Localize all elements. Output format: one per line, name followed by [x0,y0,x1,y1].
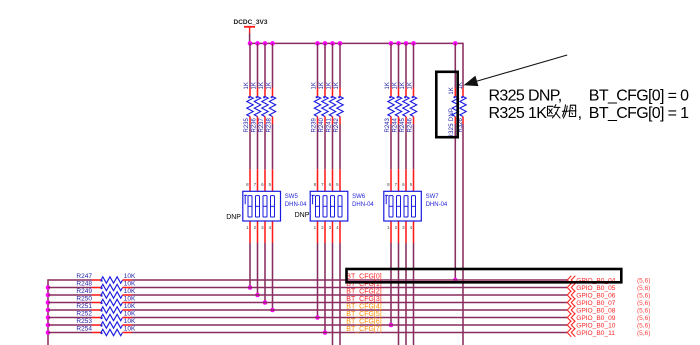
switch top pin at x=257.5 [257,169,259,191]
wire rail to R242 [339,43,341,87]
svg-text:DHN-04: DHN-04 [285,202,307,208]
resistor R238 1K pull-up [267,82,276,132]
wire R235 to switch pin [249,124,251,169]
wire net BT_CFG[0] [132,279,568,281]
wire: 3V3 rail [249,42,463,44]
svg-text:R250: R250 [76,295,92,302]
svg-text:2: 2 [254,225,257,230]
junction at x=272.5 [270,308,275,313]
svg-text:10K: 10K [124,273,136,280]
svg-text:1K: 1K [393,82,399,89]
junction at x=265 [263,300,268,305]
switch bottom pin at x=406 [405,221,407,243]
wire switch pin down from x=391 [390,243,392,325]
switch bottom pin at x=413.5 [413,221,415,243]
svg-text:R248: R248 [76,280,92,287]
svg-text:BT_CFG[0] = 1: BT_CFG[0] = 1 [589,105,689,122]
switch top pin at x=250 [249,169,251,191]
wire bus to R254 [48,332,92,334]
wire switch pin down from x=406 [405,243,407,345]
node R241 rail junction [330,41,335,46]
svg-text:1K: 1K [259,82,265,89]
svg-text:1: 1 [246,225,249,230]
svg-text:DNP: DNP [295,212,310,219]
svg-text:GPIO_B0_07: GPIO_B0_07 [576,300,616,307]
wire net BT_CFG[1] [132,287,568,289]
wire rail to R245 [405,43,407,87]
wire switch pin down from x=413.5 [413,243,415,345]
off-page connector GPIO_B0_10 [567,321,575,329]
svg-text:1K: 1K [334,82,340,89]
junction bus row 6 [46,315,51,320]
resistor R246 1K pull-up [408,82,417,132]
junction bus row 7 [46,323,51,328]
wire bus to R249 [48,294,92,296]
wire rail to R246 [413,43,415,87]
svg-text:7: 7 [254,182,257,187]
wire bus to R252 [48,317,92,319]
wire R242 to switch pin [339,124,341,169]
junction bus row 8 [46,330,51,335]
DIP switch SW5 DHN-04 [243,191,281,221]
wire net BT_CFG[4] [132,309,568,311]
wire R326 down [462,124,464,345]
resistor R325 1K [449,87,459,138]
svg-text:BT_CFG[3]: BT_CFG[3] [346,296,381,303]
wire rail to R235 [249,43,251,87]
resistor R252 10K [76,310,136,320]
svg-text:BT_CFG[0] = 0: BT_CFG[0] = 0 [589,87,689,104]
wire switch pin down from x=250 [249,243,251,288]
node R239 rail junction [315,41,320,46]
resistor R248 10K [76,280,136,290]
wire: left vertical bus [47,279,49,345]
wire R245 to switch pin [405,124,407,169]
wire R236 to switch pin [257,124,259,169]
junction at x=325 [323,330,328,335]
node R245 rail junction [404,41,409,46]
svg-text:BT_CFG[0]: BT_CFG[0] [346,274,381,281]
wire rail to R236 [257,43,259,87]
svg-text:R253: R253 [76,318,92,325]
switch top pin at x=332.5 [332,169,334,191]
wire R243 to switch pin [390,124,392,169]
svg-text:1: 1 [314,225,317,230]
resistor R244 1K pull-up [393,82,402,132]
svg-text:6: 6 [329,182,332,187]
wire rail to R244 [398,43,400,87]
wire bus to R250 [48,302,92,304]
svg-text:1K: 1K [267,82,273,89]
wire net BT_CFG[6] [132,324,568,326]
wire rail to R243 [390,43,392,87]
node R240 rail junction [323,41,328,46]
svg-text:(5,6): (5,6) [637,322,650,329]
svg-text:SW7: SW7 [426,194,440,200]
svg-text:(5,6): (5,6) [637,292,650,299]
junction BT_CFG[0] / R325 [453,278,458,283]
svg-text:6: 6 [402,182,405,187]
resistor R247 10K [76,273,136,283]
off-page connector GPIO_B0_04 [567,276,575,284]
svg-text:DNP: DNP [226,214,241,221]
resistor R242 1K pull-up [334,82,343,132]
wire bus to R248 [48,287,92,289]
svg-text:10K: 10K [124,303,136,310]
svg-text:1K: 1K [319,82,325,89]
svg-text:4: 4 [336,225,339,230]
wire switch pin down from x=272.5 [272,243,274,310]
switch bottom pin at x=272.5 [272,221,274,243]
glyph mu (Chinese) [562,105,576,118]
switch bottom pin at x=325 [324,221,326,243]
svg-text:R249: R249 [76,288,92,295]
switch top pin at x=391 [390,169,392,191]
svg-text:DHN-04: DHN-04 [426,202,448,208]
switch top pin at x=406 [405,169,407,191]
junction at x=257.5 [255,293,260,298]
switch bottom pin at x=332.5 [332,221,334,243]
svg-text:1K: 1K [244,82,250,89]
resistor R251 10K [76,303,136,313]
svg-text:10K: 10K [124,296,136,303]
svg-text:GPIO_B0_11: GPIO_B0_11 [576,330,615,337]
DIP switch SW6 DHN-04 [310,191,348,221]
wire switch pin down from x=257.5 [257,243,259,295]
svg-text:7: 7 [321,182,324,187]
annotation arrow [474,55,567,82]
switch top pin at x=340 [339,169,341,191]
svg-text:(5,6): (5,6) [637,285,650,292]
wire: rail corner down to R326 [462,43,464,88]
junction at x=391 [389,323,394,328]
switch bottom pin at x=317.5 [317,221,319,243]
wire: power stub [249,34,251,44]
resistor R241 1K pull-up [327,82,336,132]
junction at x=250 [248,285,253,290]
switch top pin at x=413.5 [413,169,415,191]
resistor R250 10K [76,295,136,305]
svg-text:R247: R247 [76,273,92,280]
wire bus to R247 [48,279,92,281]
svg-text:3: 3 [402,225,405,230]
wire switch pin down from x=317.5 [317,243,319,318]
node R242 rail junction [338,41,343,46]
svg-text:BT_CFG[7]: BT_CFG[7] [346,326,381,333]
wire R241 to switch pin [332,124,334,169]
svg-text:1K: 1K [327,82,333,89]
pin numbers SW5 [246,182,272,230]
power symbol DCDC_3V3 [234,19,268,33]
pin numbers SW7 [387,182,413,230]
wire rail to R237 [264,43,266,87]
svg-text:1K: 1K [408,82,414,89]
switch top pin at x=265 [264,169,266,191]
switch top pin at x=317.5 [317,169,319,191]
wire R244 to switch pin [398,124,400,169]
wire R238 to switch pin [272,124,274,169]
svg-text:10K: 10K [124,326,136,333]
svg-text:R325 1K: R325 1K [489,105,548,122]
svg-text:SW5: SW5 [285,194,299,200]
svg-text:8: 8 [314,182,317,187]
resistor R254 10K [76,325,136,335]
svg-text:1K: 1K [385,82,391,89]
node R235 rail junction [248,41,253,46]
node R325 rail junction [453,41,458,46]
wire R239 to switch pin [317,124,319,169]
svg-text:,: , [578,105,582,122]
wire switch pin down from x=265 [264,243,266,303]
svg-text:GPIO_B0_05: GPIO_B0_05 [576,285,616,292]
svg-text:BT_CFG[5]: BT_CFG[5] [346,311,381,318]
svg-text:5: 5 [269,182,272,187]
resistor R239 1K pull-up [312,82,321,132]
wire rail to R238 [272,43,274,87]
junction bus row 3 [46,293,51,298]
switch bottom pin at x=250 [249,221,251,243]
glyph ou (Chinese) [547,105,559,118]
switch top pin at x=325 [324,169,326,191]
wire switch pin down from x=332.5 [332,243,334,345]
resistor R326 1K [458,82,466,132]
wire R237 to switch pin [264,124,266,169]
off-page connector GPIO_B0_11 [567,328,575,336]
highlight box around R325 [436,72,457,137]
wire R325 down [454,124,456,280]
svg-text:R252: R252 [76,310,92,317]
svg-text:(5,6): (5,6) [637,277,650,284]
svg-text:DHN-04: DHN-04 [352,202,374,208]
wire rail to R241 [332,43,334,87]
off-page connector GPIO_B0_08 [567,306,575,314]
svg-text:4: 4 [410,225,413,230]
off-page connector GPIO_B0_07 [567,298,575,306]
switch bottom pin at x=340 [339,221,341,243]
resistor R236 1K pull-up [252,82,261,132]
junction bus row 4 [46,300,51,305]
svg-text:BT_CFG[4]: BT_CFG[4] [346,304,381,311]
svg-text:10K: 10K [124,281,136,288]
svg-text:(5,6): (5,6) [637,315,650,322]
svg-text:DCDC_3V3: DCDC_3V3 [234,19,268,26]
resistor R243 1K pull-up [385,82,394,132]
svg-text:3: 3 [261,225,264,230]
switch top pin at x=272.5 [272,169,274,191]
wire rail to R325 [454,43,456,87]
svg-text:GPIO_B0_06: GPIO_B0_06 [576,293,616,300]
wire R246 to switch pin [413,124,415,169]
svg-text:5: 5 [336,182,339,187]
wire switch pin down from x=340 [339,243,341,345]
svg-text:(5,6): (5,6) [637,330,650,337]
svg-text:GPIO_B0_10: GPIO_B0_10 [576,323,616,330]
switch bottom pin at x=265 [264,221,266,243]
svg-text:5: 5 [410,182,413,187]
resistor R253 10K [76,318,136,328]
svg-text:BT_CFG[2]: BT_CFG[2] [346,289,381,296]
svg-text:BT_CFG[6]: BT_CFG[6] [346,319,381,326]
svg-text:R251: R251 [76,303,92,310]
resistor R240 1K pull-up [319,82,328,132]
off-page connector GPIO_B0_06 [567,291,575,299]
svg-text:1K: 1K [400,82,406,89]
junction bus row 5 [46,308,51,313]
switch bottom pin at x=391 [390,221,392,243]
svg-text:R254: R254 [76,325,92,332]
switch top pin at x=398.5 [398,169,400,191]
svg-text:1K: 1K [252,82,258,89]
svg-text:1K: 1K [312,82,318,89]
resistor R235 1K pull-up [244,82,253,132]
wire bus to R251 [48,309,92,311]
wire net BT_CFG[2] [132,294,568,296]
highlight box around BT_CFG[0] row [347,269,622,282]
node R243 rail junction [389,41,394,46]
resistor R237 1K pull-up [259,82,268,132]
wire net BT_CFG[3] [132,302,568,304]
off-page connector GPIO_B0_05 [567,283,575,291]
wire R240 to switch pin [324,124,326,169]
DIP switch SW7 DHN-04 [384,191,422,221]
pin numbers SW6 [314,182,340,230]
node R237 rail junction [263,41,268,46]
svg-text:3: 3 [329,225,332,230]
svg-text:7: 7 [395,182,398,187]
svg-text:4: 4 [269,225,272,230]
svg-text:R325 DNP: R325 DNP [449,108,455,139]
wire rail to R239 [317,43,319,87]
svg-text:(5,6): (5,6) [637,300,650,307]
switch bottom pin at x=257.5 [257,221,259,243]
junction at x=317.5 [315,315,320,320]
svg-text:(5,6): (5,6) [637,307,650,314]
svg-text:1: 1 [387,225,390,230]
node R244 rail junction [396,41,401,46]
svg-text:10K: 10K [124,311,136,318]
wire switch pin down from x=398.5 [398,243,400,345]
svg-text:10K: 10K [124,318,136,325]
resistor R249 10K [76,288,136,298]
wire net BT_CFG[7] [132,332,568,334]
resistor R245 1K pull-up [400,82,409,132]
svg-text:10K: 10K [124,288,136,295]
wire net BT_CFG[5] [132,317,568,319]
svg-text:1K: 1K [449,87,455,94]
off-page connector GPIO_B0_09 [567,313,575,321]
wire bus to R253 [48,324,92,326]
svg-text:GPIO_B0_09: GPIO_B0_09 [576,315,616,322]
svg-text:GPIO_B0_08: GPIO_B0_08 [576,308,616,315]
svg-text:2: 2 [395,225,398,230]
svg-text:SW6: SW6 [352,194,366,200]
svg-text:6: 6 [261,182,264,187]
svg-text:R325 DNP,: R325 DNP, [489,87,562,104]
switch bottom pin at x=398.5 [398,221,400,243]
node R238 rail junction [270,41,275,46]
svg-text:8: 8 [387,182,390,187]
junction bus row 2 [46,285,51,290]
svg-text:8: 8 [246,182,249,187]
svg-text:2: 2 [321,225,324,230]
node R246 rail junction [411,41,416,46]
wire rail to R240 [324,43,326,87]
node R236 rail junction [255,41,260,46]
wire switch pin down from x=325 [324,243,326,333]
